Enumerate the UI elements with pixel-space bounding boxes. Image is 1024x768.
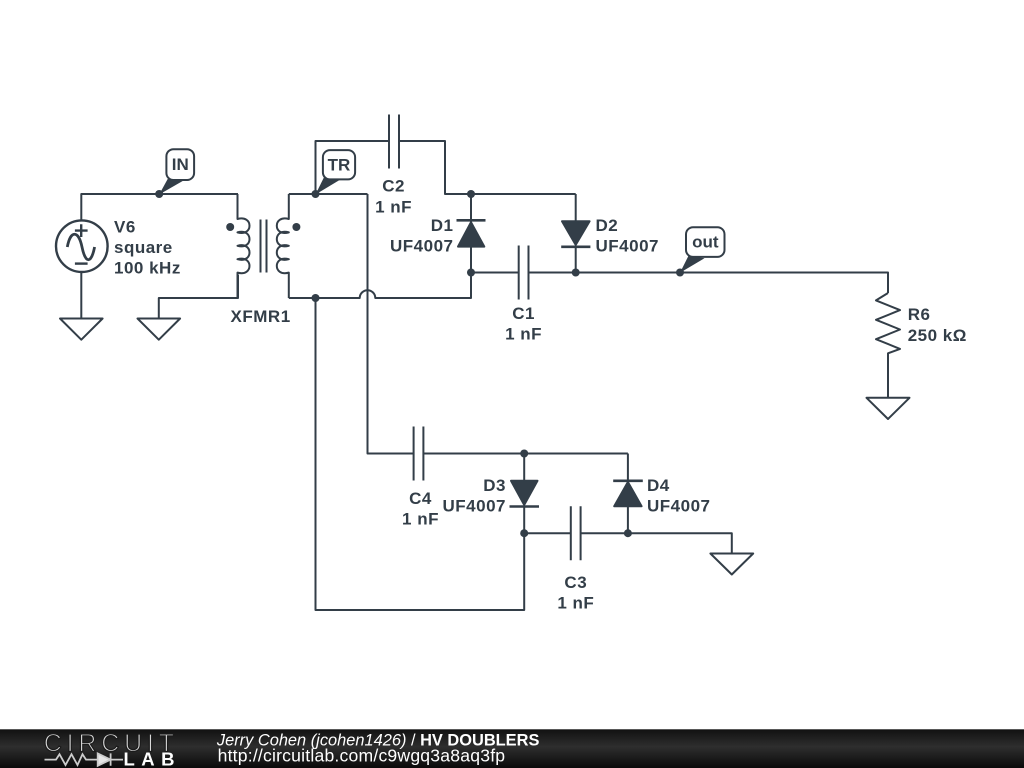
resistor R6 xyxy=(876,293,900,397)
node dot D2 bottom xyxy=(572,269,580,277)
diode D4 xyxy=(627,454,629,482)
svg-text:D1: D1 xyxy=(431,216,454,235)
wire D4 to ground xyxy=(628,533,732,553)
transformer XFMR1 secondary coil xyxy=(277,194,289,298)
svg-text:1 nF: 1 nF xyxy=(375,197,412,216)
svg-text:C4: C4 xyxy=(409,489,432,508)
svg-text:IN: IN xyxy=(172,155,189,174)
diode D2 xyxy=(575,194,577,221)
wire secondary top rail xyxy=(289,193,368,195)
node dot D1 bottom xyxy=(467,269,475,277)
wire V6 top xyxy=(81,194,238,221)
wire lower-left return loop xyxy=(316,298,525,610)
svg-text:1 nF: 1 nF xyxy=(557,594,594,613)
wire primary bottom to ground xyxy=(159,275,238,318)
wire TR branch down to lower doubler xyxy=(368,194,414,454)
svg-text:UF4007: UF4007 xyxy=(647,497,710,516)
svg-text:1 nF: 1 nF xyxy=(505,325,542,344)
flag TR xyxy=(316,177,341,194)
capacitor C1 xyxy=(471,246,576,300)
flag IN xyxy=(159,178,184,195)
svg-text:UF4007: UF4007 xyxy=(596,237,659,256)
svg-text:out: out xyxy=(692,233,719,252)
ground under R6 xyxy=(867,398,910,419)
primary polarity dot xyxy=(226,223,234,231)
wire V6 bottom xyxy=(80,273,82,318)
logo resistor-diode symbol xyxy=(45,753,124,765)
wire out rail xyxy=(576,273,888,294)
svg-text:UF4007: UF4007 xyxy=(390,237,453,256)
node dot D3 bottom xyxy=(520,529,528,537)
ground under V6 xyxy=(60,319,103,340)
capacitor C4 xyxy=(414,427,424,481)
svg-text:100 kHz: 100 kHz xyxy=(114,259,181,278)
svg-text:square: square xyxy=(114,238,173,257)
svg-text:http://circuitlab.com/c9wgq3a8: http://circuitlab.com/c9wgq3a8aq3fp xyxy=(218,746,506,766)
node dot D3 top xyxy=(520,450,528,458)
svg-text:D4: D4 xyxy=(647,476,670,495)
voltage source V6 xyxy=(56,220,108,272)
node dot D4 bottom xyxy=(624,529,632,537)
svg-text:XFMR1: XFMR1 xyxy=(231,307,291,326)
transformer core xyxy=(261,220,267,273)
node dot IN xyxy=(155,190,163,198)
node dot secondary bottom xyxy=(312,294,320,302)
svg-text:D2: D2 xyxy=(596,216,619,235)
svg-text:C3: C3 xyxy=(564,573,587,592)
svg-text:R6: R6 xyxy=(908,305,931,324)
svg-text:UF4007: UF4007 xyxy=(443,497,506,516)
wire secondary bottom with hop xyxy=(289,273,471,299)
wire TR node up to C2 xyxy=(316,141,390,194)
wire C4 right rail xyxy=(423,453,628,455)
svg-text:C1: C1 xyxy=(512,304,535,323)
svg-text:C2: C2 xyxy=(382,177,405,196)
capacitor C2 xyxy=(389,115,399,169)
svg-text:TR: TR xyxy=(328,155,351,174)
node dot D1 top xyxy=(467,190,475,198)
ground lower right xyxy=(710,554,753,575)
transformer XFMR1 primary coil xyxy=(238,194,250,298)
flag out xyxy=(680,256,705,273)
ground left of transformer xyxy=(138,319,181,340)
diode D1 xyxy=(470,194,472,222)
svg-text:LAB: LAB xyxy=(124,749,182,768)
node dot TR xyxy=(312,190,320,198)
diode D3 xyxy=(523,454,525,482)
svg-text:V6: V6 xyxy=(114,217,136,236)
svg-text:D3: D3 xyxy=(483,476,506,495)
secondary polarity dot xyxy=(292,223,300,231)
svg-text:250 kΩ: 250 kΩ xyxy=(908,326,967,345)
svg-text:1 nF: 1 nF xyxy=(402,510,439,529)
capacitor C3 xyxy=(524,506,628,560)
wire C2 right down to D rail xyxy=(399,141,576,194)
node dot out xyxy=(676,269,684,277)
